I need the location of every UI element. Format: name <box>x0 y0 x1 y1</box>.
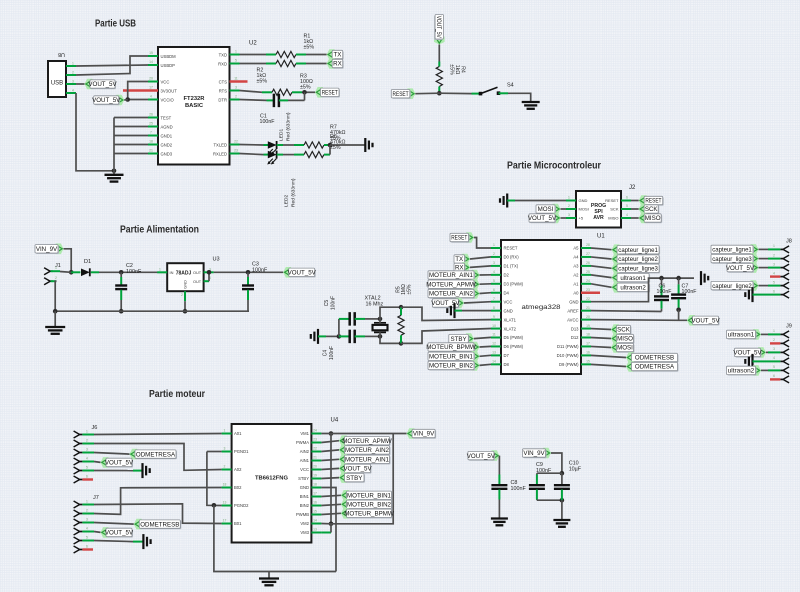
svg-text:STBY: STBY <box>450 336 466 343</box>
svg-text:MISO: MISO <box>645 215 661 222</box>
svg-text:±5%: ±5% <box>330 145 341 151</box>
svg-text:RESET: RESET <box>393 91 409 98</box>
svg-text:AVCC: AVCC <box>567 317 578 322</box>
svg-text:Partie Microcontroleur: Partie Microcontroleur <box>507 161 601 172</box>
svg-text:17: 17 <box>586 342 590 346</box>
svg-text:PGND1: PGND1 <box>234 449 249 454</box>
svg-text:A01: A01 <box>234 431 242 436</box>
svg-text:+5: +5 <box>579 216 584 221</box>
svg-text:TEST: TEST <box>161 115 172 120</box>
svg-text:1: 1 <box>235 50 237 54</box>
svg-text:D12: D12 <box>571 335 579 340</box>
svg-text:24: 24 <box>313 429 317 433</box>
svg-text:VOUT_5V: VOUT_5V <box>733 350 762 357</box>
svg-text:8: 8 <box>493 306 495 310</box>
svg-text:27: 27 <box>586 252 590 256</box>
svg-text:26: 26 <box>586 261 590 265</box>
svg-text:4: 4 <box>72 89 74 93</box>
svg-text:capteur_ligne1: capteur_ligne1 <box>618 247 658 254</box>
svg-text:13: 13 <box>223 501 227 505</box>
svg-text:RTS: RTS <box>219 88 228 93</box>
svg-text:2: 2 <box>773 253 775 257</box>
svg-text:PWMA: PWMA <box>296 440 309 445</box>
svg-text:VCC: VCC <box>300 467 309 472</box>
svg-text:4: 4 <box>773 356 775 360</box>
svg-text:A1: A1 <box>573 282 579 287</box>
svg-text:MISO: MISO <box>617 336 633 343</box>
svg-text:1: 1 <box>55 266 57 270</box>
svg-text:S4: S4 <box>507 83 514 89</box>
svg-text:TXD: TXD <box>219 52 227 57</box>
svg-text:15: 15 <box>586 360 590 364</box>
svg-text:18: 18 <box>149 140 153 144</box>
svg-text:A2: A2 <box>573 273 579 278</box>
svg-text:5: 5 <box>773 365 775 369</box>
svg-text:ODMETRESA: ODMETRESA <box>136 451 176 458</box>
svg-text:2: 2 <box>224 465 226 469</box>
svg-text:20: 20 <box>149 77 153 81</box>
svg-text:Red (633nm): Red (633nm) <box>291 178 297 207</box>
svg-text:RESET: RESET <box>645 198 661 205</box>
svg-text:6: 6 <box>86 474 88 478</box>
svg-text:VM2: VM2 <box>300 521 309 526</box>
svg-text:B02: B02 <box>234 485 242 490</box>
svg-text:VM3: VM3 <box>300 530 309 535</box>
svg-text:11: 11 <box>234 77 238 81</box>
svg-text:25: 25 <box>586 270 590 274</box>
svg-text:VCC: VCC <box>504 299 513 304</box>
svg-text:5: 5 <box>493 279 495 283</box>
svg-text:PWMB: PWMB <box>296 512 309 517</box>
svg-text:VIN_9V: VIN_9V <box>36 246 58 253</box>
svg-text:ultrason2: ultrason2 <box>728 368 755 375</box>
svg-text:28: 28 <box>586 243 590 247</box>
svg-text:7: 7 <box>493 297 495 301</box>
svg-text:DTR: DTR <box>218 97 227 102</box>
svg-text:capteur_ligne1: capteur_ligne1 <box>712 247 752 254</box>
svg-text:100nF: 100nF <box>329 346 335 360</box>
svg-text:6: 6 <box>86 544 88 548</box>
svg-text:22: 22 <box>586 297 590 301</box>
svg-text:USBDM: USBDM <box>161 54 177 59</box>
svg-text:D7: D7 <box>504 353 510 358</box>
svg-text:78ADJ: 78ADJ <box>176 270 192 276</box>
svg-text:100nF: 100nF <box>330 296 336 310</box>
svg-text:RESET: RESET <box>451 235 467 242</box>
svg-text:±5%: ±5% <box>449 64 455 75</box>
svg-text:ODMETRESB: ODMETRESB <box>140 521 179 528</box>
svg-text:GND3: GND3 <box>161 151 173 156</box>
svg-text:GND: GND <box>300 485 309 490</box>
svg-text:6: 6 <box>773 289 775 293</box>
svg-text:B01: B01 <box>234 521 242 526</box>
svg-text:AREF: AREF <box>567 308 579 313</box>
svg-text:VOUT_5V: VOUT_5V <box>92 97 121 104</box>
svg-text:A4: A4 <box>573 255 579 260</box>
svg-text:ultrason1: ultrason1 <box>620 275 646 282</box>
svg-text:VOUT_5V: VOUT_5V <box>435 16 442 39</box>
svg-text:17: 17 <box>313 492 317 496</box>
svg-text:21: 21 <box>149 149 153 153</box>
svg-text:TX: TX <box>333 52 341 59</box>
svg-text:±5%: ±5% <box>300 85 311 91</box>
svg-text:3: 3 <box>235 86 237 90</box>
svg-text:19: 19 <box>586 324 590 328</box>
svg-text:17: 17 <box>223 519 227 523</box>
svg-text:U4: U4 <box>331 418 339 424</box>
svg-text:LED2: LED2 <box>284 194 290 207</box>
svg-text:20: 20 <box>313 465 317 469</box>
svg-text:D4: D4 <box>504 290 510 295</box>
svg-text:VOUT_5V: VOUT_5V <box>726 265 755 272</box>
svg-text:1: 1 <box>224 429 226 433</box>
svg-text:5: 5 <box>773 280 775 284</box>
svg-text:11: 11 <box>492 333 496 337</box>
svg-text:3: 3 <box>773 347 775 351</box>
svg-text:U2: U2 <box>249 41 257 47</box>
svg-text:D2: D2 <box>504 273 510 278</box>
svg-text:4: 4 <box>626 213 628 217</box>
svg-text:J9: J9 <box>786 324 792 330</box>
svg-text:VOUT_5V: VOUT_5V <box>88 81 117 88</box>
svg-text:BIN1: BIN1 <box>300 494 310 499</box>
svg-text:SCK: SCK <box>610 207 619 212</box>
svg-text:3: 3 <box>72 80 74 84</box>
svg-text:1: 1 <box>159 267 161 271</box>
svg-text:1: 1 <box>493 243 495 247</box>
svg-text:RESET: RESET <box>504 246 518 251</box>
svg-text:VOUT_5V: VOUT_5V <box>105 460 134 467</box>
svg-text:GND: GND <box>504 308 513 313</box>
svg-text:19: 19 <box>313 474 317 478</box>
svg-text:Partie USB: Partie USB <box>95 19 136 30</box>
svg-text:100nF: 100nF <box>126 269 142 275</box>
svg-text:SCK: SCK <box>617 327 631 334</box>
svg-text:17: 17 <box>149 86 153 90</box>
svg-text:16: 16 <box>586 351 590 355</box>
svg-text:±5%: ±5% <box>304 45 315 51</box>
svg-text:26: 26 <box>149 113 153 117</box>
svg-text:3: 3 <box>568 213 570 217</box>
svg-text:100nF: 100nF <box>260 119 276 125</box>
svg-text:A5: A5 <box>573 246 579 251</box>
svg-text:16 Mhz: 16 Mhz <box>366 301 384 307</box>
svg-text:CTS: CTS <box>219 79 228 84</box>
svg-text:C5: C5 <box>324 300 330 307</box>
svg-text:D5 (PWM): D5 (PWM) <box>504 335 524 340</box>
svg-text:3V3OUT: 3V3OUT <box>161 88 178 93</box>
svg-text:J2: J2 <box>629 185 636 191</box>
svg-text:GND: GND <box>569 299 578 304</box>
svg-text:14: 14 <box>492 360 496 364</box>
svg-text:VIN_9V: VIN_9V <box>413 431 435 438</box>
svg-text:100nF: 100nF <box>657 289 673 295</box>
svg-text:10: 10 <box>492 324 496 328</box>
svg-text:FT232R: FT232R <box>184 96 206 102</box>
svg-text:USBDP: USBDP <box>161 63 176 68</box>
svg-text:D1 (TX): D1 (TX) <box>504 264 519 269</box>
svg-text:3: 3 <box>773 262 775 266</box>
svg-text:16: 16 <box>313 501 317 505</box>
svg-text:3: 3 <box>86 447 88 451</box>
svg-text:2: 2 <box>86 438 88 442</box>
svg-text:MOTEUR_AIN1: MOTEUR_AIN1 <box>345 457 390 464</box>
svg-text:2: 2 <box>493 252 495 256</box>
svg-text:VIN_9V: VIN_9V <box>523 450 545 457</box>
svg-text:3: 3 <box>493 261 495 265</box>
svg-text:TXLED: TXLED <box>214 142 228 147</box>
svg-text:23: 23 <box>313 438 317 442</box>
svg-text:2: 2 <box>181 293 183 297</box>
svg-text:A02: A02 <box>234 467 242 472</box>
svg-text:100nF: 100nF <box>511 486 527 492</box>
svg-text:5: 5 <box>626 204 628 208</box>
svg-text:XLAT2: XLAT2 <box>504 326 517 331</box>
svg-text:4: 4 <box>150 95 152 99</box>
svg-text:23: 23 <box>234 149 238 153</box>
svg-text:SCK: SCK <box>645 206 659 213</box>
svg-text:D11 (PWM): D11 (PWM) <box>557 344 579 349</box>
svg-text:Partie Alimentation: Partie Alimentation <box>120 225 199 236</box>
svg-text:15: 15 <box>313 510 317 514</box>
svg-text:5: 5 <box>86 465 88 469</box>
svg-text:VOUT_5V: VOUT_5V <box>431 300 460 307</box>
svg-text:AIN1: AIN1 <box>300 458 310 463</box>
svg-text:STBY: STBY <box>298 476 309 481</box>
svg-text:MOTEUR_APMW: MOTEUR_APMW <box>426 281 476 288</box>
svg-text:D10 (PWM): D10 (PWM) <box>557 353 579 358</box>
svg-text:RESET: RESET <box>322 90 338 97</box>
svg-text:D1: D1 <box>84 259 91 265</box>
svg-text:VOUT_5V: VOUT_5V <box>288 270 317 277</box>
svg-text:MOTEUR_AIN2: MOTEUR_AIN2 <box>345 447 390 454</box>
svg-text:VOUT_5V: VOUT_5V <box>467 453 496 460</box>
svg-text:PGND2: PGND2 <box>234 503 249 508</box>
svg-text:2: 2 <box>72 71 74 75</box>
svg-text:100nF: 100nF <box>682 289 698 295</box>
svg-text:MOTEUR_BIN1: MOTEUR_BIN1 <box>347 493 392 500</box>
svg-text:MISO: MISO <box>608 216 618 221</box>
svg-text:6: 6 <box>773 374 775 378</box>
svg-text:7: 7 <box>150 131 152 135</box>
svg-text:MOTEUR_BIN2: MOTEUR_BIN2 <box>347 502 392 509</box>
svg-text:3: 3 <box>86 517 88 521</box>
svg-text:GND: GND <box>183 280 188 289</box>
svg-text:BASIC: BASIC <box>185 103 204 109</box>
svg-text:D8: D8 <box>504 362 510 367</box>
svg-text:2: 2 <box>55 276 57 280</box>
svg-text:RESET: RESET <box>605 198 619 203</box>
svg-text:25: 25 <box>149 122 153 126</box>
svg-text:capteur_ligne2: capteur_ligne2 <box>712 283 752 290</box>
svg-text:VM1: VM1 <box>300 431 309 436</box>
svg-text:U1: U1 <box>597 234 605 240</box>
svg-text:14: 14 <box>149 60 153 64</box>
svg-text:RX: RX <box>333 61 342 68</box>
svg-text:capteur_ligne2: capteur_ligne2 <box>618 256 658 263</box>
svg-text:5: 5 <box>235 59 237 63</box>
svg-text:1: 1 <box>773 244 775 248</box>
svg-text:ODMETRESB: ODMETRESB <box>635 355 674 362</box>
svg-text:1: 1 <box>773 329 775 333</box>
svg-text:MOTEUR_BPMW: MOTEUR_BPMW <box>344 511 394 518</box>
svg-text:18: 18 <box>223 483 227 487</box>
svg-text:5: 5 <box>86 535 88 539</box>
svg-text:D0 (RX): D0 (RX) <box>504 255 520 260</box>
svg-text:D9 (PWM): D9 (PWM) <box>559 362 579 367</box>
svg-text:2: 2 <box>86 508 88 512</box>
svg-text:J6: J6 <box>92 425 98 431</box>
svg-text:GND1: GND1 <box>161 133 173 138</box>
svg-text:A0: A0 <box>573 290 579 295</box>
svg-text:MOTEUR_AIN2: MOTEUR_AIN2 <box>429 291 474 298</box>
svg-text:AVR: AVR <box>593 215 604 221</box>
svg-text:LED1: LED1 <box>279 128 285 141</box>
svg-text:Red (633nm): Red (633nm) <box>286 112 292 141</box>
svg-text:STBY: STBY <box>346 475 362 482</box>
svg-text:23: 23 <box>586 288 590 292</box>
svg-text:22: 22 <box>234 140 238 144</box>
svg-text:atmega328: atmega328 <box>522 304 562 311</box>
svg-text:VCCIO: VCCIO <box>161 97 175 102</box>
svg-text:1: 1 <box>86 499 88 503</box>
svg-text:ultrason2: ultrason2 <box>620 285 646 292</box>
svg-text:18: 18 <box>586 333 590 337</box>
svg-text:USB: USB <box>51 81 63 87</box>
svg-text:capteur_ligne3: capteur_ligne3 <box>618 266 658 273</box>
svg-text:BIN2: BIN2 <box>300 503 310 508</box>
svg-text:12: 12 <box>492 342 496 346</box>
svg-text:A3: A3 <box>573 264 579 269</box>
svg-text:VOUT_5V: VOUT_5V <box>343 466 372 473</box>
svg-text:VOUT_5V: VOUT_5V <box>105 530 134 537</box>
svg-text:1: 1 <box>86 429 88 433</box>
svg-text:XLAT1: XLAT1 <box>504 317 517 322</box>
svg-text:capteur_ligne3: capteur_ligne3 <box>712 256 752 263</box>
svg-text:4: 4 <box>86 526 88 530</box>
svg-text:1: 1 <box>568 196 570 200</box>
svg-text:6: 6 <box>626 196 628 200</box>
svg-text:MOTEUR_BIN1: MOTEUR_BIN1 <box>429 354 474 361</box>
svg-text:RXLED: RXLED <box>213 151 227 156</box>
svg-text:AIN2: AIN2 <box>300 449 310 454</box>
svg-text:OUT: OUT <box>193 279 202 284</box>
svg-text:21: 21 <box>313 456 317 460</box>
svg-text:21: 21 <box>586 306 590 310</box>
svg-text:13: 13 <box>313 528 317 532</box>
svg-text:24: 24 <box>586 279 590 283</box>
svg-text:D6 (PWM): D6 (PWM) <box>504 344 524 349</box>
svg-text:D13: D13 <box>571 326 579 331</box>
svg-text:4: 4 <box>493 270 495 274</box>
svg-text:9: 9 <box>493 315 495 319</box>
svg-text:100nF: 100nF <box>252 268 268 274</box>
svg-text:AGND: AGND <box>161 124 173 129</box>
svg-text:15: 15 <box>149 51 153 55</box>
svg-text:100nF: 100nF <box>536 468 552 474</box>
svg-text:J7: J7 <box>93 495 99 501</box>
svg-text:TB6612FNG: TB6612FNG <box>255 476 288 482</box>
svg-text:C4: C4 <box>323 350 329 357</box>
svg-text:MOTEUR_BIN2: MOTEUR_BIN2 <box>429 363 474 370</box>
svg-text:TX: TX <box>455 256 463 263</box>
svg-text:ODMETRESA: ODMETRESA <box>635 364 675 371</box>
svg-text:4: 4 <box>86 456 88 460</box>
svg-text:6: 6 <box>493 288 495 292</box>
svg-text:10µF: 10µF <box>569 466 582 472</box>
svg-text:Partie moteur: Partie moteur <box>149 389 205 400</box>
svg-text:IN: IN <box>170 270 174 275</box>
svg-text:ultrason1: ultrason1 <box>728 332 755 339</box>
svg-text:22: 22 <box>313 447 317 451</box>
svg-text:MOTEUR_APMW: MOTEUR_APMW <box>342 438 392 445</box>
svg-text:20: 20 <box>586 315 590 319</box>
svg-text:J8: J8 <box>786 239 792 245</box>
svg-text:3: 3 <box>224 447 226 451</box>
svg-text:2: 2 <box>235 95 237 99</box>
svg-text:VOUT_5V: VOUT_5V <box>691 318 720 325</box>
svg-text:2: 2 <box>568 204 570 208</box>
svg-text:MOSI: MOSI <box>579 207 589 212</box>
svg-text:2: 2 <box>773 338 775 342</box>
svg-text:D3 (PWM): D3 (PWM) <box>504 282 524 287</box>
svg-text:MOTEUR_AIN1: MOTEUR_AIN1 <box>429 272 474 279</box>
svg-text:±5%: ±5% <box>407 284 413 295</box>
svg-text:13: 13 <box>492 351 496 355</box>
svg-text:18: 18 <box>313 483 317 487</box>
svg-text:GND2: GND2 <box>161 142 173 147</box>
svg-text:14: 14 <box>313 519 317 523</box>
svg-text:RXD: RXD <box>218 61 227 66</box>
svg-text:4: 4 <box>773 271 775 275</box>
svg-text:MOSI: MOSI <box>617 345 633 352</box>
svg-text:U8: U8 <box>58 51 65 57</box>
svg-text:MOSI: MOSI <box>538 206 554 213</box>
svg-text:OUT: OUT <box>193 270 202 275</box>
svg-text:VCC: VCC <box>161 79 170 84</box>
svg-text:1: 1 <box>72 62 74 66</box>
svg-text:VOUT_5V: VOUT_5V <box>528 215 557 222</box>
svg-text:U3: U3 <box>213 257 220 263</box>
svg-text:GND: GND <box>579 198 588 203</box>
svg-text:±5%: ±5% <box>257 79 268 85</box>
svg-text:MOTEUR_BPMW: MOTEUR_BPMW <box>426 344 476 351</box>
